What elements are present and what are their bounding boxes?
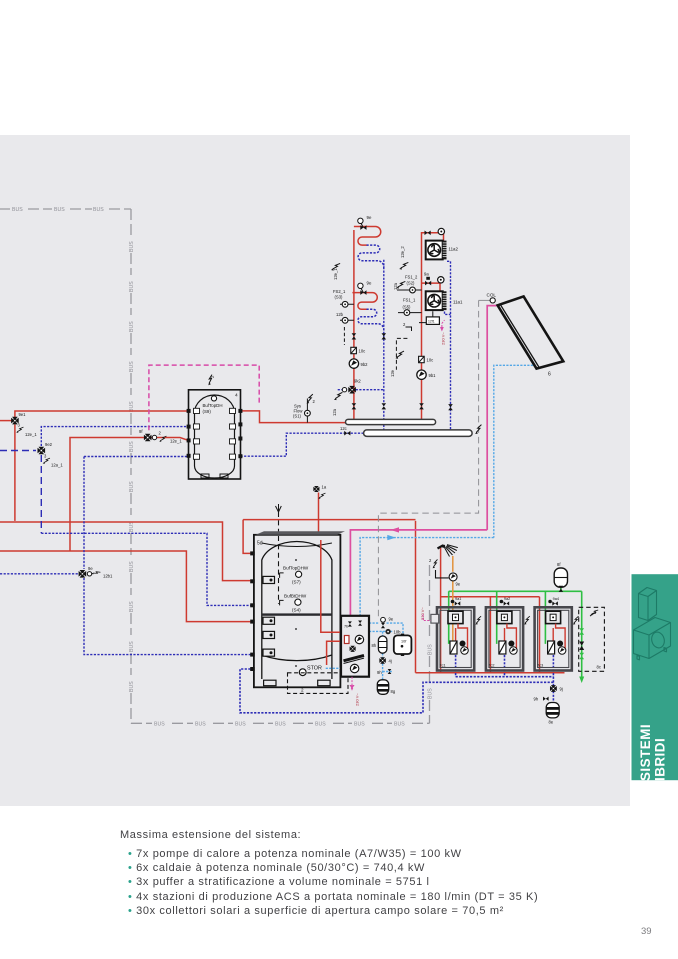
lightning right of pill2 bbox=[475, 424, 481, 435]
230V pink arrow at 12f1 bbox=[440, 327, 444, 332]
cyan arrow on solar return bbox=[387, 535, 396, 540]
wire navy HP box returns bbox=[456, 655, 554, 677]
svg-text:(S3): (S3) bbox=[335, 295, 344, 300]
wire red inside big tank down to module (redrawn above tank fill) bbox=[321, 540, 342, 665]
svg-text:12e_1: 12e_1 bbox=[333, 268, 338, 280]
svg-text:2: 2 bbox=[301, 688, 304, 693]
valve 9e mid-left bbox=[79, 570, 87, 578]
gate valves above header pills bbox=[352, 333, 357, 339]
wire blue from left edge to valve 9e bbox=[0, 573, 79, 575]
svg-text:7c3: 7c3 bbox=[537, 664, 543, 668]
svg-text:BUS: BUS bbox=[235, 722, 246, 728]
green arrow down bbox=[579, 677, 584, 684]
svg-text:11a2: 11a2 bbox=[449, 247, 459, 252]
expansion vessel 8f bbox=[554, 562, 567, 587]
wire navy HP boxes bottom manifold bbox=[456, 676, 554, 678]
wire red staircase A left to tank nipple 580.9 bbox=[0, 522, 251, 581]
svg-text:12a_1: 12a_1 bbox=[51, 463, 63, 468]
teal side tab SISTEMI IBRIDI bbox=[632, 574, 678, 781]
svg-text:BUS: BUS bbox=[129, 241, 135, 252]
wire red valve 9a branch to fancoil 11a1 bbox=[422, 283, 441, 291]
svg-text:BUS: BUS bbox=[129, 601, 135, 612]
svg-text:4j: 4j bbox=[389, 659, 392, 664]
sensor 12b bbox=[342, 317, 348, 323]
wire green drops into HP boxes bbox=[449, 591, 546, 644]
svg-text:BUS: BUS bbox=[354, 722, 365, 728]
svg-text:8c: 8c bbox=[597, 665, 601, 670]
wire blue 9e2 down staircase to big tank bbox=[40, 455, 42, 533]
svg-text:9a4: 9a4 bbox=[553, 597, 559, 601]
svg-text:BufTopDHW: BufTopDHW bbox=[283, 566, 309, 571]
serpentine coil 1 (top heat exchanger) bbox=[354, 227, 384, 271]
throttle 10c + pump 9b1 on riser B bbox=[419, 356, 434, 362]
wire green vessel 8f stub bbox=[560, 587, 562, 591]
valve 9e2 bbox=[38, 447, 46, 455]
motor valve 9e right of module bbox=[381, 623, 385, 629]
fan-coil 11a1 bbox=[426, 291, 447, 310]
wire red right riser x415.5 down to HP manifold bbox=[415, 521, 417, 673]
svg-text:1a: 1a bbox=[322, 485, 327, 490]
3-way valve 9j near module bbox=[379, 657, 385, 663]
indoor unit icon bbox=[639, 588, 657, 621]
svg-text:10c: 10c bbox=[359, 349, 366, 354]
wire cyan solar return from collector bbox=[494, 365, 537, 537]
svg-text:9e2: 9e2 bbox=[45, 442, 53, 447]
svg-text:(S9): (S9) bbox=[203, 409, 212, 414]
svg-text:12e: 12e bbox=[390, 369, 395, 377]
svg-text:10b: 10b bbox=[394, 630, 402, 635]
svg-text:BUS: BUS bbox=[54, 207, 65, 213]
svg-text:FS1_2: FS1_2 bbox=[405, 275, 418, 280]
dashed bracket 12e near 9b1 bbox=[396, 338, 407, 369]
control box 12f1 bbox=[426, 317, 439, 325]
safety group dashed box 8c bbox=[579, 607, 605, 671]
wire orange shower circulation bbox=[452, 556, 454, 644]
svg-text:12e_1: 12e_1 bbox=[170, 439, 182, 444]
valve 9a + sensor bbox=[425, 281, 431, 286]
wire navy big tank bottom to HP loop bbox=[240, 669, 553, 713]
svg-text:BufTopDH: BufTopDH bbox=[203, 403, 223, 408]
svg-text:9e: 9e bbox=[367, 215, 372, 220]
svg-text:(S2): (S2) bbox=[407, 281, 416, 286]
wire blue left dashed stub to valve 9e2 bbox=[0, 450, 36, 452]
svg-text:8g: 8g bbox=[391, 689, 396, 694]
svg-text:BufBtDHW: BufBtDHW bbox=[284, 594, 307, 599]
outdoor unit icon bbox=[634, 618, 671, 659]
svg-text:BUS: BUS bbox=[394, 722, 405, 728]
valve 9a1 on top of box1 bbox=[455, 601, 461, 605]
wire red small tank right to header pill 1 bbox=[241, 411, 347, 423]
vessel 8h bbox=[372, 636, 387, 653]
wire red module lower hook inside tank bbox=[327, 641, 342, 665]
black dashed sensor line inside tank (redrawn) bbox=[278, 536, 280, 604]
wire gray COL sensor lead bbox=[479, 299, 490, 301]
diagram gray panel bbox=[0, 135, 630, 806]
STOR dashed box bbox=[288, 673, 349, 694]
svg-text:12e_1: 12e_1 bbox=[25, 432, 37, 437]
wire cyan module to 10f box bbox=[369, 623, 403, 634]
valve 9f bbox=[144, 434, 152, 442]
heat pump box 7c3 bbox=[535, 607, 572, 670]
svg-text:230 V~: 230 V~ bbox=[440, 332, 445, 345]
wire red serpentine riser A bbox=[353, 230, 355, 419]
BUS labels right vertical bbox=[428, 644, 434, 699]
wire blue small tank right to header pill 2 bbox=[241, 433, 365, 456]
wire navy down to vessel 8e bbox=[552, 677, 554, 703]
svg-text:BUS: BUS bbox=[129, 561, 135, 572]
shower 7b with circulation pump 9e bbox=[438, 545, 458, 557]
svg-text:9b2: 9b2 bbox=[361, 362, 369, 367]
wire pink solar flow from collector bbox=[487, 306, 496, 530]
vent arrow above big tank bbox=[276, 504, 282, 513]
svg-text:12c: 12c bbox=[340, 426, 347, 431]
wire red serpentine riser B top corner bbox=[422, 233, 444, 420]
3-way valve 9k2 bbox=[348, 386, 356, 394]
svg-text:SISTEMI: SISTEMI bbox=[638, 724, 653, 781]
wire blue 9e2 up and to small tank bbox=[41, 427, 188, 446]
svg-text:BUS: BUS bbox=[315, 722, 326, 728]
svg-text:IBRIDI: IBRIDI bbox=[653, 738, 668, 781]
Sys Flow sensor S1 bbox=[306, 399, 308, 423]
wire red corner x70 to valve 9f toward small tank bbox=[70, 438, 144, 552]
sensor FS2_1 (S3) bbox=[342, 301, 348, 307]
svg-text:7c1: 7c1 bbox=[440, 664, 446, 668]
svg-text:BUS: BUS bbox=[129, 321, 135, 332]
svg-text:11a1: 11a1 bbox=[453, 300, 463, 305]
nipples left bbox=[250, 551, 255, 671]
svg-text:9a2: 9a2 bbox=[504, 597, 510, 601]
controller box at box1 left bbox=[431, 614, 439, 623]
svg-text:9e: 9e bbox=[389, 617, 394, 622]
svg-text:9e: 9e bbox=[456, 582, 461, 587]
sensor 10b bbox=[385, 629, 390, 634]
svg-text:BUS: BUS bbox=[428, 688, 434, 699]
BUS right vertical bbox=[429, 565, 431, 723]
svg-text:BUS: BUS bbox=[129, 481, 135, 492]
svg-text:9h: 9h bbox=[377, 670, 382, 675]
wire red HP bottom manifold bbox=[416, 672, 565, 674]
BUS bottom horizontal bbox=[131, 722, 430, 724]
internal port flanges bbox=[263, 576, 275, 656]
wire cyan tank preheat stub (redrawn) bbox=[326, 667, 341, 669]
230V pink at module bottom bbox=[350, 677, 353, 690]
svg-text:9a: 9a bbox=[424, 272, 429, 277]
top bowtie + sensor on riser B bbox=[425, 231, 431, 236]
valve 9j at HP return bbox=[550, 685, 557, 692]
svg-text:BUS: BUS bbox=[154, 722, 165, 728]
wire red HP manifold top y596.7 bbox=[441, 597, 540, 673]
fan-coil 11a2 bbox=[426, 241, 447, 260]
solar pump module right of big tank bbox=[341, 616, 369, 677]
wire blue 9k2 branch bbox=[338, 389, 384, 391]
svg-text:STOR: STOR bbox=[307, 666, 322, 672]
valve 9e coil1 (motorized) bbox=[358, 218, 367, 230]
controller box 10f bbox=[394, 634, 412, 656]
valve 9e1 (left edge) bbox=[11, 417, 19, 425]
wire blue x84 riser tank return bbox=[83, 457, 85, 570]
wire cyan solar return horizontal to module bbox=[360, 538, 494, 619]
expansion vessel 8e bbox=[546, 703, 559, 725]
svg-text:BUS: BUS bbox=[93, 207, 104, 213]
dashed stub under FS sensors bbox=[343, 327, 345, 345]
svg-text:FS2_1: FS2_1 bbox=[333, 289, 346, 294]
feet bbox=[264, 680, 276, 686]
svg-text:10c: 10c bbox=[427, 358, 434, 363]
pink arrow on solar flow bbox=[391, 527, 400, 532]
svg-text:9e1: 9e1 bbox=[19, 412, 27, 417]
svg-text:5d: 5d bbox=[257, 541, 263, 547]
wire red inside big tank down to module bbox=[321, 540, 341, 632]
wire red long horizontal y519.6 right segment bbox=[243, 519, 415, 521]
wire gray stub controller box1 bbox=[431, 614, 438, 616]
svg-text:9j: 9j bbox=[560, 687, 563, 692]
svg-text:12e_2: 12e_2 bbox=[400, 246, 405, 258]
flue zigzag above small tank bbox=[208, 375, 212, 386]
wire cyan tank preheat stub bbox=[326, 667, 341, 669]
magenta dashed zone box bbox=[149, 365, 259, 430]
svg-text:7c2: 7c2 bbox=[488, 664, 494, 668]
wire green HP top manifold bbox=[449, 590, 582, 592]
heat pump box 7c2 bbox=[486, 607, 523, 670]
bottom description text bbox=[120, 828, 301, 842]
heat pump box 7c1 bbox=[437, 607, 474, 670]
wire red supply into valve 9e1 from left edge bbox=[0, 420, 13, 422]
svg-text:(S1): (S1) bbox=[293, 414, 302, 419]
wire red branch down x243.1 to big tank top nipple bbox=[243, 520, 250, 554]
svg-text:39: 39 bbox=[641, 926, 652, 937]
header pill 1 bbox=[346, 419, 436, 424]
svg-text:9e: 9e bbox=[367, 281, 372, 286]
wire blue valve 9e down to big tank bottom bbox=[84, 578, 251, 655]
svg-text:12b: 12b bbox=[336, 312, 344, 317]
svg-text:(S4): (S4) bbox=[292, 608, 301, 613]
svg-text:12b1: 12b1 bbox=[103, 574, 113, 579]
svg-text:BUS: BUS bbox=[129, 361, 135, 372]
BUS labels left vertical bbox=[129, 241, 135, 692]
BUS top horizontal bbox=[0, 208, 131, 210]
BUS left vertical bbox=[130, 209, 132, 723]
bowtie 9h near module bbox=[388, 669, 392, 674]
lightning arrows between HP boxes bbox=[475, 615, 481, 625]
svg-text:8h: 8h bbox=[372, 643, 377, 648]
valve 12c on blue into pill2 bbox=[344, 431, 350, 436]
wire red shower riser x440.6 bbox=[440, 547, 442, 673]
valve 9h at HP return bbox=[543, 697, 549, 701]
svg-text:12f1: 12f1 bbox=[428, 319, 435, 323]
wire blue coil return riser bbox=[383, 260, 385, 430]
svg-text:(S5): (S5) bbox=[403, 305, 412, 310]
serpentine coil 2 (lower heat exchanger) bbox=[352, 293, 383, 332]
svg-text:12a: 12a bbox=[393, 282, 398, 290]
svg-text:BUS: BUS bbox=[12, 207, 23, 213]
small buffer tank 4 (BufTopDH S9) bbox=[187, 390, 243, 479]
solar collector 6 bbox=[498, 296, 564, 377]
wire red 9e1 up to small tank S9 left top bbox=[15, 411, 189, 417]
wire green right drop through 8c bbox=[581, 591, 583, 678]
throttle 10c + pump 9b2 on riser A bbox=[351, 347, 365, 353]
svg-text:4: 4 bbox=[235, 393, 238, 399]
1a connection above big tank bbox=[313, 486, 319, 492]
COL sensor bbox=[487, 293, 497, 304]
svg-text:9b1: 9b1 bbox=[429, 373, 437, 378]
wire red 9f to tank nipple bbox=[152, 438, 189, 441]
svg-text:BUS: BUS bbox=[129, 681, 135, 692]
svg-text:9h: 9h bbox=[534, 697, 539, 702]
header pill 2 bbox=[364, 430, 473, 437]
svg-text:BUS: BUS bbox=[195, 722, 206, 728]
svg-text:COL: COL bbox=[487, 293, 497, 298]
wire red 1a drop into big tank top bbox=[318, 493, 320, 534]
svg-text:230 V~: 230 V~ bbox=[354, 693, 359, 706]
svg-text:BUS: BUS bbox=[428, 644, 434, 655]
svg-text:9a1: 9a1 bbox=[455, 597, 461, 601]
wire cyan module to sensor 10b and vessel 8h bbox=[369, 631, 393, 636]
wire pink solar flow horizontal to module bbox=[350, 530, 487, 619]
svg-text:6: 6 bbox=[548, 372, 551, 378]
svg-text:9e: 9e bbox=[88, 566, 93, 571]
wire red y551 staircase B to big tank nipple 621.6 bbox=[0, 551, 251, 622]
black dashed sensor line into big tank bbox=[278, 512, 280, 604]
svg-text:12a: 12a bbox=[332, 408, 337, 416]
svg-text:(S7): (S7) bbox=[292, 580, 301, 585]
expansion vessel 8g bbox=[377, 680, 396, 695]
svg-text:7b: 7b bbox=[344, 625, 348, 629]
valve 9e coil2 (motorized) bbox=[358, 283, 367, 295]
svg-text:BUS: BUS bbox=[275, 722, 286, 728]
svg-text:BUS: BUS bbox=[129, 281, 135, 292]
wire cyan vessel 8h to 8g bbox=[383, 653, 392, 680]
svg-text:FS1_1: FS1_1 bbox=[403, 298, 416, 303]
wire gray dashed sensor line collector to module bbox=[378, 300, 478, 620]
svg-text:BUS: BUS bbox=[129, 641, 135, 652]
wire red left riser x14.9 down from 9e1 bbox=[14, 425, 16, 521]
wire blue fancoil return riser bbox=[445, 261, 451, 430]
big stratification tank 5d bbox=[250, 531, 345, 687]
svg-text:BUS: BUS bbox=[129, 441, 135, 452]
svg-text:9k2: 9k2 bbox=[354, 379, 361, 384]
wire blue small tank left bottom bbox=[84, 456, 189, 458]
svg-text:8e: 8e bbox=[549, 720, 554, 725]
